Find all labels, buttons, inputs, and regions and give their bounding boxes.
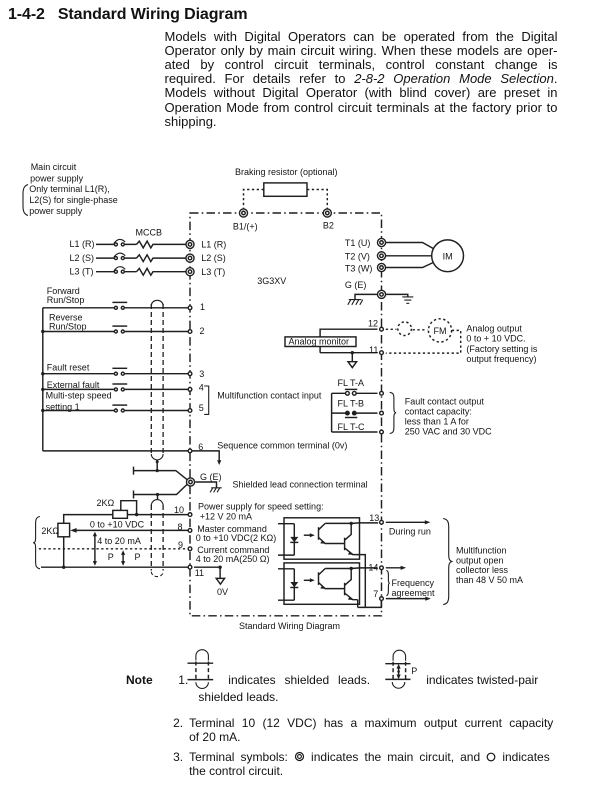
shield tube rows10-11 (dashed) — [151, 495, 163, 577]
brace speed pot group — [33, 517, 40, 569]
switch Multi-step speed setting 1 (row 5) — [43, 405, 188, 412]
brace multifunction output — [443, 519, 452, 605]
analog monitor box — [285, 337, 356, 347]
svg-text:L3 (T): L3 (T) — [70, 266, 94, 276]
ground (slashed) inside box — [348, 300, 363, 305]
junction drain B / lower tube lead — [156, 493, 159, 496]
svg-text:11: 11 — [195, 568, 204, 578]
arrow from terminal 6 to 0V common — [192, 451, 219, 461]
terminal 12 — [380, 327, 384, 331]
frequency meter FM (dashed circle) — [428, 319, 451, 342]
svg-text:0 to +10 VDC: 0 to +10 VDC — [90, 520, 145, 530]
svg-text:collector less: collector less — [456, 565, 509, 575]
svg-text:B1/(+): B1/(+) — [233, 221, 258, 231]
svg-text:L1 (R): L1 (R) — [201, 240, 226, 250]
svg-text:+12 V 20 mA: +12 V 20 mA — [200, 512, 252, 522]
svg-text:7: 7 — [373, 589, 378, 599]
dashed link small circle to FM — [413, 329, 428, 331]
terminal FL T-C — [380, 430, 384, 434]
0V stub under analog monitor — [351, 353, 353, 362]
svg-text:Power supply for speed setting: Power supply for speed setting: — [198, 502, 324, 512]
svg-text:Only terminal L1(R),: Only terminal L1(R), — [29, 184, 110, 194]
svg-text:0 to + 10 VDC.: 0 to + 10 VDC. — [466, 334, 525, 344]
terminal L3(T) — [186, 268, 194, 276]
0V open arrow — [216, 578, 224, 584]
svg-text:FL T-C: FL T-C — [338, 422, 366, 432]
junction bus/row5 — [41, 409, 44, 412]
terminal 6 — [188, 449, 192, 453]
svg-text:IM: IM — [443, 252, 453, 262]
junction bus/row4 — [41, 388, 44, 391]
heading — [8, 6, 247, 24]
potentiometer 2KOhm body — [58, 523, 70, 537]
fault relay common bus — [331, 393, 333, 432]
svg-text:agreement: agreement — [392, 588, 436, 598]
wire U2 collector to terminal 14 — [351, 567, 377, 570]
svg-text:P: P — [108, 552, 114, 562]
svg-text:Frequency: Frequency — [392, 578, 435, 588]
inverter enclosure 3G3XV (dash-dot box) — [190, 213, 382, 616]
svg-text:0V: 0V — [217, 587, 228, 597]
svg-text:Analog output: Analog output — [466, 324, 522, 334]
svg-text:Fault contact output: Fault contact output — [405, 397, 485, 407]
svg-text:Multi-step speed: Multi-step speed — [46, 391, 112, 401]
svg-text:Analog monitor: Analog monitor — [289, 337, 350, 347]
svg-text:power supply: power supply — [29, 206, 83, 216]
svg-text:than 48 V 50 mA: than 48 V 50 mA — [456, 575, 523, 585]
wire terminal 11 to 0V — [194, 567, 220, 578]
svg-text:L2 (S): L2 (S) — [201, 253, 226, 263]
brace for single-phase note — [23, 185, 28, 216]
svg-text:G (E): G (E) — [345, 280, 367, 290]
switch Fault reset (row 3) — [43, 368, 188, 375]
wire row 9 (dashed, current command) — [39, 548, 188, 550]
terminal FL T-B — [380, 411, 384, 415]
terminal 1 — [188, 306, 192, 310]
svg-text:During run: During run — [389, 526, 431, 536]
switch External fault (row 4) — [43, 384, 188, 391]
0V open arrow (analog) — [348, 362, 357, 368]
braking resistor (optional) body — [264, 183, 307, 196]
svg-text:3G3XV: 3G3XV — [257, 276, 286, 286]
brace fault output — [390, 392, 396, 433]
junction 0V stub — [218, 566, 221, 569]
terminal T2(V) — [377, 252, 385, 260]
svg-text:3: 3 — [199, 369, 204, 379]
MCCB breaker pole L2 — [96, 253, 186, 261]
junction row11R/0V stub — [351, 351, 354, 354]
terminal L1(R) — [186, 240, 194, 248]
junction pot/row11 — [62, 566, 65, 569]
svg-text:1: 1 — [200, 302, 205, 312]
svg-text:Main circuit: Main circuit — [31, 162, 77, 172]
svg-text:2KΩ: 2KΩ — [41, 526, 59, 536]
ground (bars) motor side — [402, 297, 413, 303]
svg-text:contact capacity:: contact capacity: — [405, 407, 472, 417]
terminal G(E) left (shield connection) — [186, 478, 194, 486]
switch Reverse Run/Stop (row 2) — [43, 326, 188, 333]
terminal 11 right — [380, 351, 384, 355]
shield drain wire B to G(E) — [134, 485, 187, 499]
arrow output 7 — [386, 598, 428, 600]
shield drain wire A to G(E) — [134, 467, 188, 480]
svg-text:4 to 20 mA: 4 to 20 mA — [97, 536, 141, 546]
arrow output 14 — [386, 567, 403, 569]
dashed lead to B2 — [307, 190, 327, 209]
note symbol twisted-pair shielded leads — [385, 650, 417, 688]
terminal 3 — [188, 372, 192, 376]
svg-text:L1 (R): L1 (R) — [70, 239, 95, 249]
svg-text:250 VAC and 30 VDC: 250 VAC and 30 VDC — [405, 427, 492, 437]
fault contact FL T-B (NC) — [332, 411, 378, 418]
svg-text:10: 10 — [174, 505, 184, 515]
terminal 7 — [380, 597, 384, 601]
dashed lead to B1 — [244, 190, 264, 209]
svg-text:MCCB: MCCB — [136, 227, 163, 237]
svg-text:Fault reset: Fault reset — [47, 363, 90, 373]
resistor 2KOhm body — [113, 510, 128, 518]
svg-text:P: P — [135, 552, 141, 562]
optocoupler U1 (during run) — [278, 518, 360, 559]
svg-text:Standard Wiring Diagram: Standard Wiring Diagram — [239, 621, 340, 631]
terminal T1(U) — [377, 238, 385, 246]
common emitter rail to terminal 7 — [358, 601, 382, 607]
terminal 2 — [188, 330, 192, 334]
wiper arrow to row 8 — [76, 529, 188, 531]
svg-text:2KΩ: 2KΩ — [97, 498, 115, 508]
wire T3 to motor — [386, 263, 433, 268]
terminal 13 — [380, 520, 384, 524]
dashed link to FM — [386, 328, 397, 330]
switch Forward Run/Stop (row 1) — [43, 302, 188, 309]
svg-text:Shielded lead connection termi: Shielded lead connection terminal — [233, 480, 368, 490]
motor IM — [432, 240, 464, 272]
svg-text:Multifunction contact input: Multifunction contact input — [217, 390, 322, 400]
svg-text:L2(S) for single-phase: L2(S) for single-phase — [29, 195, 118, 205]
terminal L2(S) — [186, 254, 194, 262]
fault contact FL T-A (NO) — [332, 389, 378, 395]
small dashed circle — [398, 322, 412, 336]
shield tube rows1-5 (dashed) — [151, 300, 163, 460]
svg-text:FM: FM — [434, 326, 447, 336]
svg-text:Sequence common terminal (0v): Sequence common terminal (0v) — [217, 441, 347, 451]
terminal 11 left — [188, 565, 192, 569]
svg-text:FL T-A: FL T-A — [338, 378, 365, 388]
svg-text:T3 (W): T3 (W) — [345, 263, 373, 273]
svg-text:14: 14 — [368, 563, 378, 573]
junction bus/row2 — [41, 330, 44, 333]
paragraph — [165, 30, 558, 129]
wire sequence common (row 6) — [43, 450, 188, 452]
svg-text:P: P — [411, 666, 417, 676]
svg-text:output frequency): output frequency) — [466, 354, 536, 364]
junction bus/row3 — [41, 372, 44, 375]
wire row 11 (0V) — [41, 566, 188, 568]
wire U2 emitter to common — [357, 600, 359, 608]
svg-text:(Factory setting is: (Factory setting is — [466, 344, 538, 354]
terminal 10 — [188, 513, 192, 517]
svg-text:G (E): G (E) — [200, 472, 222, 482]
wire G(E) to grounds — [355, 294, 408, 299]
svg-text:9: 9 — [178, 540, 183, 550]
svg-text:T1 (U): T1 (U) — [345, 238, 371, 248]
junction drain A — [156, 469, 159, 472]
terminal 14 — [380, 566, 384, 570]
svg-text:Run/Stop: Run/Stop — [47, 295, 85, 305]
MCCB breaker pole L3 — [96, 267, 186, 275]
svg-text:power supply: power supply — [30, 174, 84, 184]
svg-text:FL T-B: FL T-B — [338, 398, 365, 408]
wire T1 to motor — [386, 243, 433, 249]
svg-text:output open: output open — [456, 555, 504, 565]
svg-text:2: 2 — [200, 326, 205, 336]
svg-text:B2: B2 — [323, 221, 334, 231]
junction row10/jumper — [135, 513, 138, 516]
svg-text:6: 6 — [198, 442, 203, 452]
terminal 9 — [188, 547, 192, 551]
MCCB breaker pole L1 (switch + element) — [96, 239, 186, 247]
note: main circuit power supply — [29, 162, 118, 216]
svg-text:Multlfunction: Multlfunction — [456, 546, 507, 556]
terminal 4 — [188, 388, 192, 392]
svg-text:4 to 20 mA(250 Ω): 4 to 20 mA(250 Ω) — [196, 554, 270, 564]
svg-text:Run/Stop: Run/Stop — [49, 322, 87, 332]
range arrow 4-20mA (rows 9-11) — [121, 550, 125, 566]
note section — [126, 673, 153, 687]
wire G(E) to ground — [195, 482, 216, 488]
pot lower lead to row 11 — [63, 537, 65, 567]
svg-text:12: 12 — [368, 319, 378, 329]
terminal 5 — [188, 409, 192, 413]
control common bus (left) — [42, 308, 44, 451]
dot below cup — [156, 460, 159, 463]
svg-text:Braking resistor (optional): Braking resistor (optional) — [235, 167, 338, 177]
ground (slashed) at G(E) — [210, 488, 222, 493]
svg-text:External fault: External fault — [47, 380, 100, 390]
wire U1 emitter to common — [360, 555, 366, 608]
svg-text:4: 4 — [199, 383, 204, 393]
arrow output 13 — [386, 521, 427, 523]
rheostat wiper jumper — [121, 501, 137, 515]
terminal 8 — [188, 529, 192, 533]
svg-text:T2 (V): T2 (V) — [345, 252, 370, 262]
svg-text:L2 (S): L2 (S) — [70, 253, 95, 263]
svg-text:8: 8 — [178, 522, 183, 532]
range arrow 0-10VDC (rows 8-11) — [93, 532, 97, 566]
brace frequency agreement — [386, 570, 389, 595]
note symbol shielded leads — [188, 650, 214, 689]
terminal B1/(+) — [239, 209, 247, 217]
svg-text:13: 13 — [369, 513, 379, 523]
wire T2 to motor — [386, 255, 432, 257]
wire U1 collector to terminal 13 — [351, 522, 377, 523]
svg-text:5: 5 — [199, 403, 204, 413]
wire FL T-C — [332, 431, 378, 433]
svg-text:less than 1 A for: less than 1 A for — [405, 417, 469, 427]
analog monitor wiring — [320, 329, 377, 353]
bracket terminals 4-5 — [204, 386, 209, 414]
terminal FL T-A — [380, 391, 384, 395]
svg-text:11: 11 — [369, 345, 378, 355]
dashed return to terminal 11 — [386, 330, 461, 353]
svg-text:L3 (T): L3 (T) — [201, 267, 225, 277]
svg-text:0 to +10 VDC(2 KΩ): 0 to +10 VDC(2 KΩ) — [196, 533, 277, 543]
terminal B2 — [323, 209, 331, 217]
optocoupler U2 (frequency agreement) — [278, 563, 360, 604]
terminal T3(W) — [377, 263, 385, 271]
terminal G(E) right — [377, 290, 385, 298]
shield drain lead (upper tube) — [156, 460, 158, 471]
wire row 10 with pot feed — [64, 515, 188, 524]
